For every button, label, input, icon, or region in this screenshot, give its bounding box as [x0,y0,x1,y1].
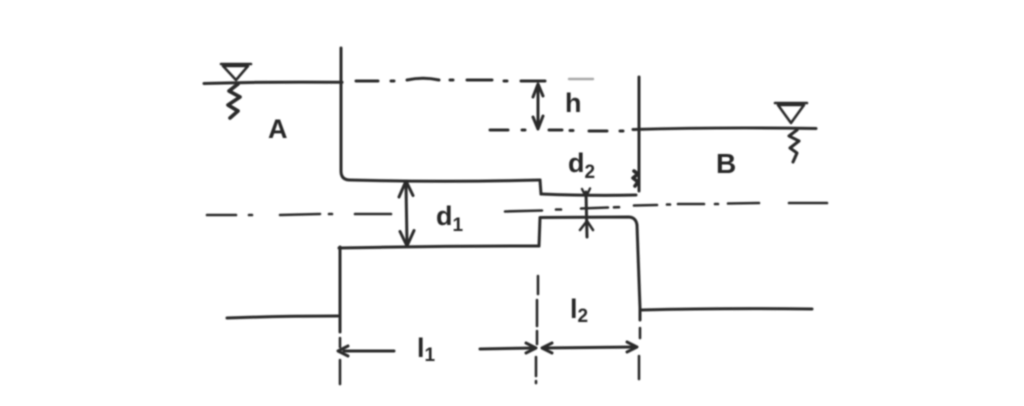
junction squiggle mark at wall B / pipe top [633,171,638,186]
reservoir A floor line [227,316,338,318]
water surface symbol A (bar) [221,63,251,66]
dimension arrow d1 (bottom head) [400,231,414,247]
dimension d2 (shaft) [586,192,587,237]
faint dash upper right of level-A line [569,78,593,80]
reservoir B water surface line [633,128,816,130]
svg-text:d1: d1 [436,201,464,236]
dimension arrow d1 (shaft) [406,184,407,243]
svg-text:l1: l1 [417,333,436,366]
contraction step (bottom) [539,218,540,246]
dimension l2 line [545,347,634,348]
svg-text:h: h [565,88,582,118]
dimension l1 right head [526,343,536,353]
svg-text:d2: d2 [568,148,595,183]
reservoir A lower wall [339,247,342,332]
dimension l1 left head [338,346,348,356]
water surface symbol A (squiggle) [228,84,240,118]
pipe d2 bottom wall [540,217,637,225]
water surface symbol B (bar) [775,102,807,105]
reservoir B floor line [641,309,812,310]
reservoir B lower wall [637,225,640,320]
pipe d2 top wall [541,194,636,195]
extension line dashes below wall B [639,328,640,379]
svg-text:B: B [716,148,736,179]
dimension d2 (bottom head) [580,221,593,230]
dimension arrow h (shaft) [537,87,540,126]
contraction step (top) [540,180,541,194]
reservoir A water surface line [204,82,342,83]
dimension d2 (top head) [582,189,590,198]
pipe d1 bottom wall [339,246,539,248]
pipe d1 top wall [350,180,540,181]
dimension arrow h (bottom head) [533,116,543,129]
water surface symbol B (triangle) [778,105,804,123]
svg-text:A: A [268,114,288,144]
dimension arrow h (top head) [533,84,543,97]
dimension l1 right arrow shaft [480,348,533,349]
svg-text:l2: l2 [570,294,588,327]
dimension l2 left head [542,343,552,353]
water surface symbol B (squiggle) [789,130,799,162]
dimension arrow d1 (top head) [399,181,413,197]
reservoir A upper wall [341,48,350,180]
water surface symbol A (triangle) [223,66,248,80]
dimension l2 right head [627,342,637,352]
pipe axis dash-dot centerline [207,203,827,215]
dimension l1 left arrow shaft [344,350,394,353]
reservoir B upper wall [638,77,641,191]
level-B dash-dot extension line [490,130,623,131]
extension line dashes below wall A [339,338,342,384]
extension line dashes at x538 [536,276,538,383]
level-A dash-dot extension line [356,78,545,81]
